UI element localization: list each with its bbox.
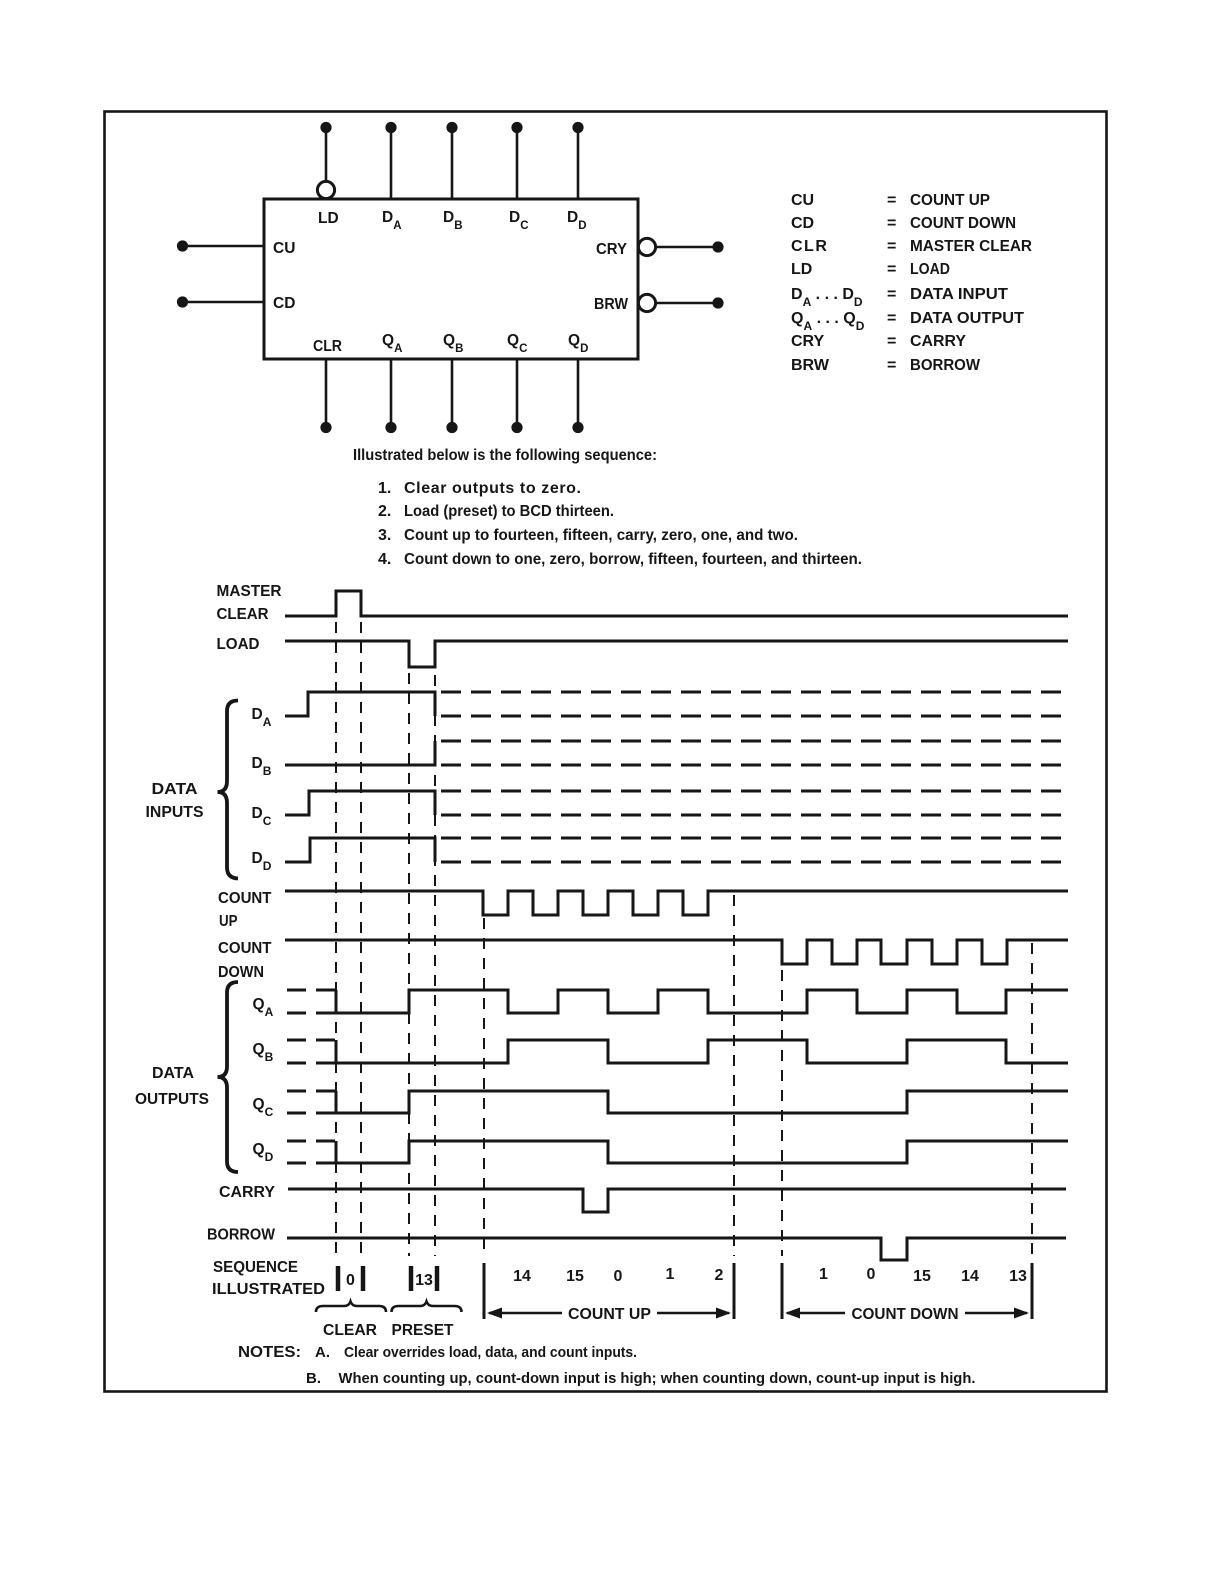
svg-text:1.: 1. <box>378 480 391 497</box>
waveform DB solid <box>285 741 435 765</box>
svg-text:BRW: BRW <box>791 357 830 374</box>
wire DC top pin <box>511 122 522 199</box>
wire QB bottom pin <box>446 359 457 433</box>
svg-text:OUTPUTS: OUTPUTS <box>135 1091 209 1108</box>
waveform DA dashed don't-care <box>441 692 1068 716</box>
svg-text:=: = <box>887 286 896 303</box>
svg-text:PRESET: PRESET <box>392 1322 454 1339</box>
waveform DC solid <box>285 791 435 815</box>
svg-text:CARRY: CARRY <box>219 1184 275 1201</box>
svg-text:CD: CD <box>791 215 814 232</box>
inversion bubble on BRW <box>638 294 655 311</box>
inversion bubble on CRY <box>638 238 655 255</box>
waveform COUNT DOWN <box>285 940 1068 964</box>
wire DD top pin <box>572 122 583 199</box>
svg-text:0: 0 <box>614 1268 623 1285</box>
svg-text:MASTER: MASTER <box>217 583 282 600</box>
wire DB top pin <box>446 122 457 199</box>
guide line clear end <box>360 622 362 1256</box>
svg-text:=: = <box>887 333 896 350</box>
svg-text:CU: CU <box>791 192 814 209</box>
svg-text:COUNT DOWN: COUNT DOWN <box>852 1306 959 1323</box>
svg-text:CLR: CLR <box>313 338 342 355</box>
wire CD left pin <box>177 296 264 307</box>
waveform DA solid <box>285 692 435 716</box>
svg-text:=: = <box>887 192 896 209</box>
svg-text:COUNT: COUNT <box>218 940 272 957</box>
guide line count-up end <box>733 895 735 1256</box>
waveform DB dashed don't-care <box>441 741 1068 765</box>
guide line count-down end <box>1031 943 1033 1256</box>
svg-text:14: 14 <box>961 1268 979 1285</box>
svg-text:NOTES:: NOTES: <box>238 1344 301 1361</box>
wire QC bottom pin <box>511 359 522 433</box>
svg-text:CLR: CLR <box>791 238 828 255</box>
svg-text:MASTER CLEAR: MASTER CLEAR <box>910 238 1032 255</box>
waveform LOAD <box>285 641 1068 667</box>
vertical guide dashed lines <box>336 622 1032 1256</box>
svg-text:4.: 4. <box>378 551 391 568</box>
svg-text:CRY: CRY <box>596 241 628 258</box>
svg-text:COUNT UP: COUNT UP <box>568 1306 651 1323</box>
sequence section bars <box>484 1263 1032 1319</box>
svg-text:Count down to one, zero, borro: Count down to one, zero, borrow, fifteen… <box>404 551 862 568</box>
svg-text:ILLUSTRATED: ILLUSTRATED <box>212 1281 325 1298</box>
svg-text:Illustrated below is the follo: Illustrated below is the following seque… <box>353 447 657 464</box>
svg-text:LD: LD <box>791 261 812 278</box>
svg-text:When counting up, count-down i: When counting up, count-down input is hi… <box>339 1370 976 1387</box>
svg-text:DOWN: DOWN <box>218 964 264 981</box>
svg-text:=: = <box>887 261 896 278</box>
brace DATA OUTPUTS <box>218 982 239 1172</box>
svg-text:SEQUENCE: SEQUENCE <box>213 1259 298 1276</box>
svg-text:DATA: DATA <box>152 781 198 798</box>
svg-text:LOAD: LOAD <box>217 636 260 653</box>
arrow COUNT DOWN <box>785 1308 1029 1319</box>
waveform QC unknown dashed <box>287 1091 336 1113</box>
svg-text:A.: A. <box>315 1344 330 1361</box>
wire QD bottom pin <box>572 359 583 433</box>
wire LD top pin <box>320 122 331 181</box>
svg-text:=: = <box>887 310 896 327</box>
svg-text:BORROW: BORROW <box>910 357 981 374</box>
svg-text:1: 1 <box>666 1266 675 1283</box>
guide line load start <box>408 673 410 1256</box>
waveform BORROW <box>287 1238 1066 1260</box>
svg-text:LOAD: LOAD <box>910 261 950 278</box>
waveform DC dashed don't-care <box>441 791 1068 815</box>
wire DA top pin <box>385 122 396 199</box>
svg-text:Count up to fourteen, fifteen,: Count up to fourteen, fifteen, carry, ze… <box>404 527 798 544</box>
svg-text:COUNT: COUNT <box>218 890 272 907</box>
svg-text:CARRY: CARRY <box>910 333 966 350</box>
waveform QA unknown dashed <box>287 990 336 1013</box>
svg-text:14: 14 <box>513 1268 531 1285</box>
waveform DD dashed don't-care <box>441 838 1068 862</box>
svg-text:3.: 3. <box>378 527 391 544</box>
brace CLEAR <box>316 1302 386 1313</box>
waveform CARRY <box>288 1189 1066 1212</box>
svg-text:UP: UP <box>219 913 238 930</box>
brace DATA INPUTS <box>218 701 239 879</box>
waveform QC solid <box>336 1091 1068 1113</box>
waveform COUNT UP <box>285 891 1068 915</box>
page border frame <box>105 112 1107 1392</box>
svg-text:Clear outputs to zero.: Clear outputs to zero. <box>404 480 581 497</box>
wire QA bottom pin <box>385 359 396 433</box>
waveform MASTER CLEAR <box>285 591 1068 616</box>
svg-text:13: 13 <box>1009 1268 1027 1285</box>
waveform DD solid <box>285 838 435 862</box>
waveform QB solid <box>336 1040 1068 1063</box>
wire BRW right pin <box>656 297 724 308</box>
svg-text:=: = <box>887 238 896 255</box>
counter IC body U1 <box>264 199 638 359</box>
waveform QA solid <box>336 990 1068 1013</box>
svg-text:INPUTS: INPUTS <box>146 804 204 821</box>
svg-text:B.: B. <box>306 1370 321 1387</box>
svg-text:CRY: CRY <box>791 333 825 350</box>
svg-text:CLEAR: CLEAR <box>323 1322 377 1339</box>
svg-text:DATA: DATA <box>152 1065 194 1082</box>
arrow COUNT UP <box>487 1308 731 1319</box>
wire CRY right pin <box>656 241 724 252</box>
svg-text:Clear overrides load, data, an: Clear overrides load, data, and count in… <box>344 1344 637 1361</box>
wire CLR bottom pin <box>320 359 331 433</box>
svg-text:13: 13 <box>415 1272 433 1289</box>
svg-text:0: 0 <box>346 1272 355 1289</box>
svg-text:2.: 2. <box>378 503 391 520</box>
svg-text:=: = <box>887 215 896 232</box>
svg-text:DATA OUTPUT: DATA OUTPUT <box>910 310 1024 327</box>
svg-text:15: 15 <box>566 1268 584 1285</box>
svg-text:1: 1 <box>819 1266 828 1283</box>
svg-text:COUNT UP: COUNT UP <box>910 192 990 209</box>
sequence numbers <box>346 1266 1027 1289</box>
svg-text:0: 0 <box>867 1266 876 1283</box>
sequence tick bars around 0 and 13 <box>338 1266 437 1291</box>
svg-text:DATA INPUT: DATA INPUT <box>910 286 1008 303</box>
waveform QB unknown dashed <box>287 1040 336 1063</box>
svg-text:BORROW: BORROW <box>207 1227 276 1244</box>
guide line load end <box>434 675 436 1256</box>
wire CU left pin <box>177 240 264 251</box>
svg-text:CU: CU <box>273 240 295 257</box>
inversion bubble on LD <box>317 181 334 198</box>
guide line count-down start <box>781 970 783 1256</box>
svg-text:15: 15 <box>913 1268 931 1285</box>
guide line clear start <box>335 622 337 1256</box>
waveform QD solid <box>336 1141 1068 1163</box>
svg-text:CLEAR: CLEAR <box>217 606 269 623</box>
svg-text:2: 2 <box>715 1267 724 1284</box>
waveform QD unknown dashed <box>287 1141 336 1163</box>
svg-text:Load (preset) to BCD thirteen.: Load (preset) to BCD thirteen. <box>404 503 614 520</box>
svg-text:COUNT DOWN: COUNT DOWN <box>910 215 1016 232</box>
guide line count-up start <box>483 918 485 1256</box>
svg-text:BRW: BRW <box>594 296 628 313</box>
svg-text:LD: LD <box>318 210 339 227</box>
svg-text:CD: CD <box>273 295 295 312</box>
svg-text:=: = <box>887 357 896 374</box>
brace PRESET <box>392 1302 462 1313</box>
